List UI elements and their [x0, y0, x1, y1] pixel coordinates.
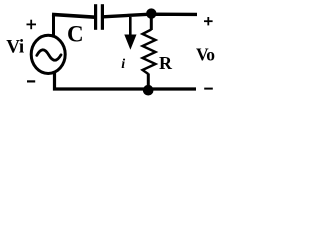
- node junction dot (top): [146, 8, 156, 18]
- svg-text:Vi: Vi: [6, 37, 24, 58]
- node junction dot (bottom): [143, 85, 154, 96]
- wire (top stub from source to top rail): [52, 15, 55, 38]
- svg-text:Vo: Vo: [196, 44, 215, 64]
- svg-text:C: C: [67, 22, 84, 47]
- wire (resistor bottom stub): [147, 74, 150, 90]
- wire (resistor top stub): [150, 14, 153, 30]
- current arrow i (head): [124, 35, 136, 50]
- current arrow i (shaft): [129, 17, 132, 36]
- minus sign (source polarity): [27, 80, 35, 82]
- sine wave symbol inside source: [37, 50, 61, 60]
- plus sign (source polarity): [27, 20, 37, 30]
- wire (bottom rail from source to output): [55, 72, 197, 89]
- wire (top rail left segment to capacitor): [52, 14, 95, 17]
- capacitor C left plate: [94, 4, 97, 30]
- wire (top rail right segment from capacitor to output): [103, 14, 197, 17]
- minus sign (output polarity): [204, 88, 213, 90]
- capacitor C right plate: [101, 4, 104, 30]
- svg-text:R: R: [159, 53, 173, 73]
- resistor R zigzag: [143, 30, 156, 75]
- plus sign (output polarity): [204, 17, 213, 25]
- svg-text:i: i: [121, 57, 125, 72]
- voltage source Vi (AC source circle): [31, 35, 65, 73]
